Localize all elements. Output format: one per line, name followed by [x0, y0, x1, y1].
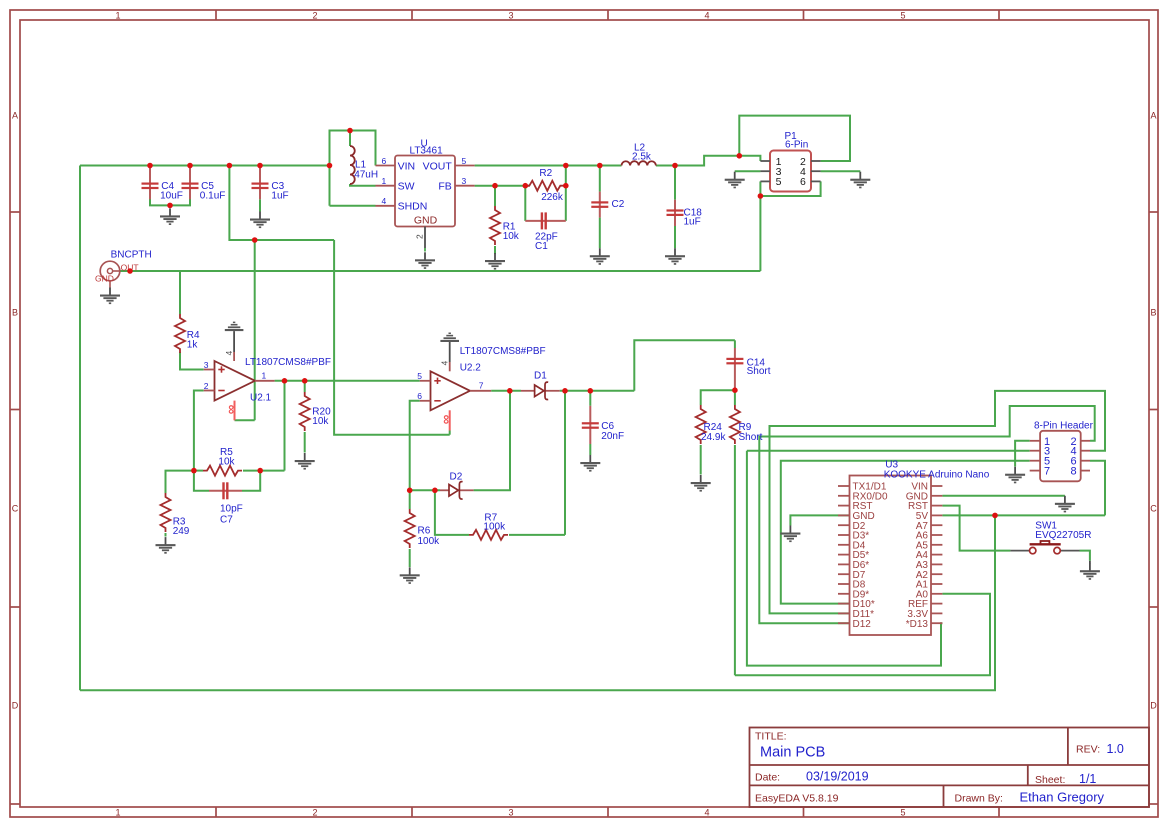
node R5 right	[257, 468, 263, 474]
resistor R3	[161, 493, 190, 537]
svg-text:1uF: 1uF	[271, 191, 288, 202]
svg-text:5: 5	[776, 176, 782, 188]
wire C2 tap	[599, 166, 601, 192]
svg-text:GND: GND	[414, 215, 438, 227]
wire U2.1 Vminus link	[235, 419, 255, 421]
ground C6	[580, 455, 600, 472]
wire R7 right riser	[564, 391, 566, 535]
title block texts	[755, 731, 1124, 805]
node rail x329	[327, 163, 333, 169]
svg-text:100k: 100k	[483, 521, 506, 532]
wire R1 top	[494, 186, 496, 206]
node C4C5 gnd	[167, 203, 173, 209]
svg-text:Short: Short	[747, 366, 771, 377]
svg-text:LT3461: LT3461	[410, 146, 444, 157]
U3 right pin stubs	[931, 486, 942, 623]
svg-text:1: 1	[382, 176, 387, 186]
svg-text:C7: C7	[220, 515, 233, 526]
node rail C5	[187, 163, 193, 169]
svg-text:7: 7	[1044, 466, 1050, 478]
node D2 left	[407, 488, 413, 494]
switch SW1	[1010, 521, 1091, 564]
wire D1 out	[560, 390, 635, 392]
svg-text:∞: ∞	[223, 404, 238, 414]
wire D12 loop	[759, 406, 1094, 623]
svg-text:1k: 1k	[187, 340, 199, 351]
svg-text:B: B	[1150, 308, 1156, 318]
title block	[750, 728, 1150, 808]
svg-text:KOOKYE Adruino Nano: KOOKYE Adruino Nano	[884, 469, 990, 480]
wire C7 right loop	[242, 471, 260, 491]
svg-text:226k: 226k	[541, 192, 564, 203]
svg-text:47uH: 47uH	[354, 170, 378, 181]
wire SW1 gnd corner	[1080, 551, 1090, 561]
U2.1 pin 4 V+ stub	[224, 331, 234, 361]
capacitor C6	[582, 406, 624, 444]
ground P1 pin4	[850, 172, 870, 189]
U pin 3 FB stub	[455, 176, 475, 186]
node D2 R7	[432, 488, 438, 494]
svg-text:10k: 10k	[503, 231, 520, 242]
wire main top rail	[80, 165, 330, 167]
svg-text:03/19/2019: 03/19/2019	[806, 770, 869, 784]
wire header pin1 gnd	[1015, 441, 1030, 467]
svg-text:C1: C1	[535, 241, 548, 252]
svg-text:1: 1	[115, 10, 120, 20]
node y240	[252, 237, 258, 243]
svg-text:LT1807CMS8#PBF: LT1807CMS8#PBF	[460, 346, 546, 357]
resistor R6	[405, 509, 440, 548]
svg-text:3: 3	[204, 360, 209, 370]
svg-text:EVQ22705R: EVQ22705R	[1035, 530, 1091, 541]
wire R9 top	[734, 390, 736, 405]
svg-text:0.1uF: 0.1uF	[200, 191, 226, 202]
wire SHDN	[330, 205, 376, 207]
svg-text:BNCPTH: BNCPTH	[111, 250, 152, 261]
svg-text:VOUT: VOUT	[423, 160, 453, 172]
op-amp U2.2	[431, 346, 546, 424]
node P1 in	[737, 153, 743, 159]
wire BNC OUT line	[120, 270, 761, 272]
wire R1 bottom	[494, 246, 496, 254]
ground R1	[485, 253, 505, 270]
U2.1 pin 1 stub	[255, 371, 275, 381]
U pin 4 SHDN stub	[376, 196, 396, 206]
svg-text:D1: D1	[534, 371, 547, 382]
diode D2	[440, 472, 474, 499]
node D1 C6	[588, 388, 594, 394]
svg-text:U2.1: U2.1	[250, 393, 272, 404]
resistor R2	[525, 168, 564, 203]
wire R20 bottom	[304, 432, 306, 453]
U pin 2 GND stem	[415, 227, 426, 252]
wire R6 bottom	[409, 549, 411, 567]
svg-text:Sheet:: Sheet:	[1035, 774, 1065, 786]
wire rail drop x229	[229, 166, 334, 241]
wire C2 bottom	[599, 218, 601, 249]
svg-text:VIN: VIN	[398, 160, 416, 172]
ground BNCPTH	[100, 288, 120, 305]
svg-text:24.9k: 24.9k	[701, 432, 726, 443]
node rail x229	[227, 163, 233, 169]
ground R6	[400, 567, 420, 584]
wire L1 top lead	[349, 131, 351, 147]
wire R7 right lead	[509, 534, 565, 536]
wire A0 loop	[735, 594, 990, 676]
svg-text:*D13: *D13	[906, 619, 929, 630]
svg-text:249: 249	[173, 526, 190, 537]
ground U3 left GND	[780, 526, 800, 543]
wire R4 to pin3	[180, 352, 204, 370]
node rail C18	[672, 163, 678, 169]
wire L2 to C18 node	[656, 165, 675, 167]
node 5V loop	[992, 513, 998, 519]
wire R6 top	[409, 490, 411, 509]
wire RST to SW1	[942, 506, 1010, 551]
wire D2 left	[410, 489, 440, 491]
wire R24 link	[701, 390, 735, 405]
svg-text:∞: ∞	[438, 414, 453, 424]
svg-text:Ethan Gregory: Ethan Gregory	[1020, 790, 1105, 805]
svg-text:1/1: 1/1	[1079, 772, 1096, 786]
wire P1 pin3 gnd	[735, 170, 761, 172]
power symbol U2.2	[440, 333, 459, 343]
svg-text:D12: D12	[853, 619, 872, 630]
wire C6 tap	[589, 391, 591, 406]
svg-text:3: 3	[508, 808, 513, 818]
ground C18	[665, 248, 685, 265]
wire D1 riser to C14	[634, 340, 735, 391]
wire VOUT rail	[475, 165, 622, 167]
node C14 R9	[732, 387, 738, 393]
wire R3 link	[166, 471, 194, 493]
wire D11 loop	[770, 391, 1106, 614]
capacitor C5	[182, 168, 226, 202]
capacitor C2	[591, 192, 624, 218]
svg-text:2: 2	[204, 381, 209, 391]
svg-text:2: 2	[415, 234, 425, 239]
svg-text:SHDN: SHDN	[398, 201, 428, 213]
svg-text:5: 5	[417, 371, 422, 381]
wire U2.2 Vminus stub link	[449, 431, 451, 435]
U2.1 pin 2 stub	[204, 381, 215, 391]
svg-text:10uF: 10uF	[160, 191, 183, 202]
wire U3 gnd right	[942, 495, 1065, 497]
node P1 out	[758, 193, 764, 199]
svg-text:2: 2	[312, 10, 317, 20]
svg-text:6: 6	[417, 391, 422, 401]
wire L1 to SW	[350, 184, 376, 186]
wire R9 bottom long	[734, 445, 736, 675]
wire C1 right loop	[565, 186, 567, 221]
svg-text:10pF: 10pF	[220, 504, 243, 515]
wire R4 top	[179, 271, 181, 314]
U2.2 V- stub	[449, 410, 451, 430]
wire P1 pin5 down	[759, 181, 761, 196]
node FB R1	[492, 183, 498, 189]
U2.2 pin 6 stub	[417, 391, 430, 401]
U pin 5 VOUT stub	[455, 156, 475, 166]
svg-text:TITLE:: TITLE:	[755, 731, 787, 743]
wire left vertical	[79, 166, 81, 691]
wire feedback vertical	[284, 381, 286, 471]
svg-text:6: 6	[800, 176, 806, 188]
resistor R20	[300, 392, 331, 431]
svg-text:D: D	[12, 701, 19, 711]
capacitor C4	[142, 168, 183, 202]
wire P1 pin4 gnd	[821, 170, 861, 172]
ground SW1	[1080, 563, 1100, 580]
wire U2.2 out to D1	[491, 390, 521, 392]
svg-text:EasyEDA V5.8.19: EasyEDA V5.8.19	[755, 793, 839, 805]
P1 pin stubs	[760, 161, 820, 181]
wire C18 bottom	[674, 226, 676, 248]
diode D1	[521, 371, 560, 400]
svg-text:100k: 100k	[418, 536, 441, 547]
resistor R5	[203, 447, 242, 475]
svg-text:3: 3	[508, 10, 513, 20]
svg-text:2.5k: 2.5k	[632, 152, 652, 163]
U2.2 pin 5 stub	[417, 371, 430, 381]
resistor R24	[696, 405, 727, 444]
wire C7 left loop	[194, 471, 209, 491]
svg-text:Main PCB: Main PCB	[760, 745, 825, 761]
IC U LT3461 body	[395, 139, 455, 227]
svg-text:D: D	[1150, 701, 1157, 711]
resistor R1	[490, 206, 520, 245]
ground C3	[250, 212, 270, 229]
connector 8-Pin Header body	[1034, 420, 1094, 481]
svg-text:20nF: 20nF	[601, 431, 624, 442]
wire FB line	[475, 185, 530, 187]
wire D10 loop	[781, 461, 1030, 604]
U pin 1 SW stub	[376, 176, 396, 186]
svg-text:7: 7	[479, 381, 484, 391]
wire OUT riser to P1	[759, 196, 761, 271]
svg-text:4: 4	[439, 361, 449, 366]
svg-text:10k: 10k	[312, 416, 329, 427]
capacitor C7	[209, 482, 243, 525]
wire P1 pin6 down	[760, 181, 820, 196]
svg-text:1: 1	[115, 808, 120, 818]
wire R6 drop	[435, 490, 469, 535]
node FB C1	[523, 183, 529, 189]
inductor L2	[622, 142, 656, 165]
svg-text:A: A	[1150, 111, 1156, 121]
wire R5 left lead	[194, 470, 203, 472]
wire C4 C5 bottom join	[150, 199, 190, 205]
svg-text:GND: GND	[95, 273, 114, 283]
svg-text:8-Pin Header: 8-Pin Header	[1034, 420, 1094, 431]
svg-text:REV:: REV:	[1076, 744, 1100, 756]
svg-text:1: 1	[262, 371, 267, 381]
capacitor C18	[667, 200, 703, 228]
node rail C3	[257, 163, 263, 169]
U2.1 pin 3 stub	[204, 360, 215, 370]
node rail C2	[597, 163, 603, 169]
node U2.1 R20	[302, 378, 308, 384]
svg-text:2: 2	[312, 808, 317, 818]
ground C4 C5	[160, 208, 180, 225]
U2.1 V- stub	[234, 401, 236, 421]
wire R20 top	[304, 381, 306, 392]
op-amp U2.1	[215, 357, 331, 414]
svg-text:R6: R6	[418, 525, 431, 536]
ground R3	[156, 537, 176, 554]
wire pin2 feedback drop	[194, 391, 204, 471]
wire C14 top	[734, 340, 736, 348]
ground U3 right GND	[1055, 496, 1075, 513]
node rail R2	[563, 163, 569, 169]
ground R24	[691, 475, 711, 492]
svg-text:1uF: 1uF	[684, 217, 701, 228]
svg-text:4: 4	[224, 351, 234, 356]
wire node A vertical x254	[254, 240, 256, 420]
wire U2.2 pin6 drop	[410, 401, 420, 491]
U pin 6 VIN stub	[376, 156, 396, 166]
U2.2 pin 7 stub	[470, 381, 491, 391]
node BNC out	[127, 268, 133, 274]
wire header pin3 line	[747, 450, 1030, 452]
svg-text:5: 5	[900, 10, 905, 20]
svg-text:5: 5	[462, 156, 467, 166]
wire 5V line	[942, 514, 1105, 516]
svg-text:Date:: Date:	[755, 772, 780, 784]
ground P1 pin3	[725, 172, 745, 189]
svg-text:U2.2: U2.2	[460, 362, 482, 373]
wire C14 bottom	[734, 388, 736, 390]
node R5 left	[191, 468, 197, 474]
inductor L1	[350, 146, 378, 184]
U2.2 pin 4 V+ stub	[439, 342, 449, 371]
svg-text:Short: Short	[739, 432, 763, 443]
wire rail jog to P1	[675, 156, 760, 166]
svg-text:D2: D2	[450, 472, 463, 483]
svg-text:5: 5	[900, 808, 905, 818]
wire U2.1 output	[275, 380, 420, 382]
svg-text:C2: C2	[612, 199, 625, 210]
svg-text:1.0: 1.0	[1107, 742, 1124, 756]
wire R2 right riser	[565, 166, 567, 186]
ground header pin1	[1005, 467, 1025, 484]
IC U3 KOOKYE Adruino Nano body	[850, 460, 990, 636]
connector P1 body	[770, 131, 811, 192]
svg-text:FB: FB	[438, 180, 451, 192]
wire C1 left loop	[524, 186, 526, 221]
svg-text:SW: SW	[398, 181, 415, 193]
svg-text:LT1807CMS8#PBF: LT1807CMS8#PBF	[245, 357, 331, 368]
connector BNCPTH	[95, 250, 152, 288]
resistor R7	[469, 512, 508, 540]
ground C2	[590, 248, 610, 265]
svg-text:3: 3	[462, 176, 467, 186]
capacitor C3	[252, 168, 289, 202]
wire R5 right lead	[243, 470, 285, 472]
wire C3 bottom	[259, 199, 261, 211]
8-Pin Header stubs	[1030, 441, 1090, 471]
wire x334 vertical	[334, 240, 450, 435]
wire R24 bottom	[700, 445, 702, 475]
node rail C4	[147, 163, 153, 169]
svg-text:C: C	[12, 504, 19, 514]
capacitor C14	[726, 348, 770, 388]
wire D13 loop	[747, 451, 943, 666]
wire P1 top loop	[739, 116, 850, 161]
resistor R4	[175, 314, 200, 353]
capacitor C1	[525, 212, 566, 252]
ground R20	[295, 453, 315, 470]
svg-text:A: A	[12, 111, 18, 121]
wire C6 bottom	[589, 444, 591, 455]
node D2 branch	[507, 388, 513, 394]
svg-text:B: B	[12, 308, 18, 318]
svg-text:Drawn By:: Drawn By:	[955, 793, 1003, 805]
U3 left pin stubs	[838, 486, 850, 623]
power symbol U2.1	[225, 322, 244, 332]
svg-text:4: 4	[704, 10, 709, 20]
wire bottom loop	[80, 515, 995, 690]
node U2.1 fb	[282, 378, 288, 384]
ground U LT3461	[415, 252, 435, 269]
svg-text:10k: 10k	[218, 457, 235, 468]
svg-text:6-Pin: 6-Pin	[785, 139, 808, 150]
svg-text:R2: R2	[539, 168, 552, 179]
wire 5V to header pin6	[1090, 461, 1105, 516]
svg-text:4: 4	[382, 196, 387, 206]
wire U3 gnd left	[790, 515, 849, 525]
wire L1 loop top	[330, 131, 376, 206]
wire R3 bottom	[165, 533, 167, 537]
U3 right pin labels	[906, 482, 929, 630]
node D1 R7	[562, 388, 568, 394]
svg-text:8: 8	[1071, 466, 1077, 478]
node R2 C1	[563, 183, 569, 189]
svg-text:6: 6	[382, 156, 387, 166]
wire C18 tap	[674, 166, 676, 200]
svg-text:4: 4	[704, 808, 709, 818]
U3 left pin labels	[853, 482, 888, 630]
resistor R9	[730, 405, 763, 444]
node L1 top	[347, 128, 353, 134]
svg-text:C: C	[1150, 504, 1157, 514]
wire D2 right riser	[474, 391, 510, 491]
